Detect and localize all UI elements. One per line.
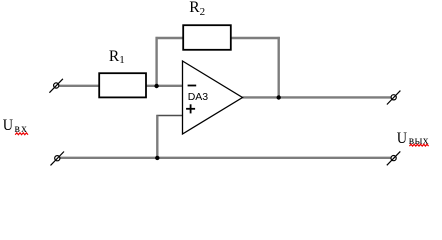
svg-text:U: U [3, 116, 13, 134]
label U_vyx (output voltage) [397, 129, 407, 147]
spellcheck squiggle under vx [15, 133, 28, 135]
spellcheck squiggle under vyx [409, 144, 428, 146]
terminal: input bottom [51, 152, 65, 166]
terminal: input top [49, 79, 63, 93]
resistor R2 [183, 25, 231, 50]
junction dot: output node [277, 95, 281, 99]
wire: feedback riser right down to output [278, 37, 280, 98]
wire: non-inverting horizontal into op-amp [156, 115, 182, 117]
op-amp minus sign [188, 85, 197, 87]
resistor R1 [99, 73, 146, 97]
wire: op-amp output to right terminal [243, 96, 392, 98]
wire: input terminal to R1 [59, 85, 100, 87]
terminal: output top [387, 91, 401, 105]
wire: feedback riser left (junction up to R2 level) [155, 37, 157, 86]
wire: feedback top left to R2 [156, 37, 184, 39]
wire: R1 to op-amp inverting input [146, 85, 183, 87]
label U_vx (input voltage) [3, 116, 13, 134]
wire: non-inverting riser down to bottom rail [156, 116, 158, 158]
svg-text:DA3: DA3 [188, 91, 209, 103]
junction dot: inverting node [154, 84, 158, 88]
terminal: output bottom [387, 151, 401, 165]
wire: R2 to right corner [231, 37, 280, 39]
op-amp plus sign [186, 108, 195, 110]
junction dot: bottom rail node [155, 156, 159, 160]
op-amp DA3 triangle [183, 61, 243, 134]
svg-text:U: U [397, 129, 407, 147]
wire: bottom rail [60, 157, 391, 159]
